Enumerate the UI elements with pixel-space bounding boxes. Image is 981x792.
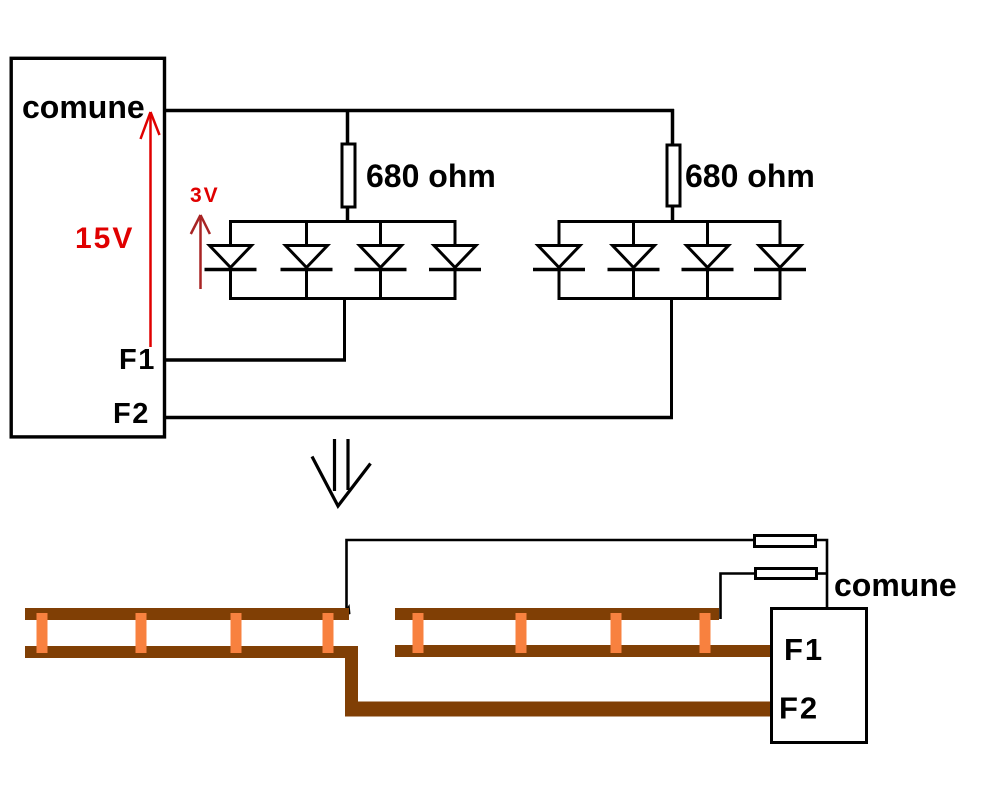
svg-text:3V: 3V — [190, 184, 220, 207]
svg-text:F1: F1 — [119, 344, 156, 376]
svg-text:comune: comune — [834, 567, 957, 603]
svg-text:680 ohm: 680 ohm — [685, 158, 815, 194]
svg-text:F2: F2 — [113, 398, 150, 430]
svg-text:F2: F2 — [779, 691, 819, 726]
svg-text:F1: F1 — [784, 632, 824, 667]
svg-text:15V: 15V — [75, 222, 134, 255]
svg-text:680 ohm: 680 ohm — [366, 158, 496, 194]
svg-text:comune: comune — [22, 89, 145, 125]
